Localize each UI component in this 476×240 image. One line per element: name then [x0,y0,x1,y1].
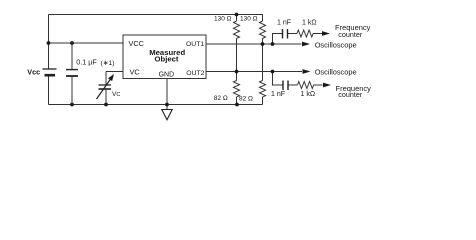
svg-text:0.1 µF: 0.1 µF [76,58,97,67]
svg-text:OUT1: OUT1 [186,41,204,48]
svg-text:VC: VC [130,67,141,76]
svg-text:130 Ω: 130 Ω [214,16,232,23]
svg-text:82 Ω: 82 Ω [214,95,228,102]
svg-text:Object: Object [155,55,179,64]
svg-text:Oscilloscope: Oscilloscope [315,41,357,50]
svg-text:1 kΩ: 1 kΩ [302,20,317,27]
svg-text:1 nF: 1 nF [277,19,291,26]
svg-text:1 kΩ: 1 kΩ [301,91,316,98]
svg-text:counter: counter [338,30,363,39]
svg-text:OUT2: OUT2 [186,70,204,77]
svg-text:1 nF: 1 nF [271,91,285,98]
svg-text:130 Ω: 130 Ω [240,16,258,23]
svg-text:counter: counter [338,90,363,99]
svg-text:GND: GND [159,71,175,78]
svg-text:VC: VC [112,91,120,98]
svg-text:Oscilloscope: Oscilloscope [315,67,357,76]
svg-text:(∗1): (∗1) [101,60,115,67]
svg-text:Vcc: Vcc [27,67,40,76]
svg-text:82 Ω: 82 Ω [239,95,253,102]
svg-text:VCC: VCC [129,39,144,48]
